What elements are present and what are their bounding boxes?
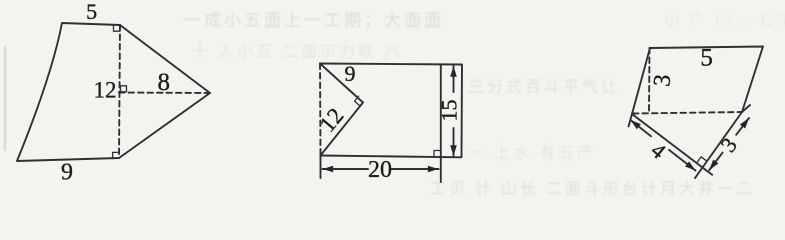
svg-text:4: 4 xyxy=(646,137,670,163)
figure 2: right-angle square at bottom edge / extension xyxy=(434,151,441,157)
svg-text:3: 3 xyxy=(649,73,676,88)
figure 3: dimension arrow 4 upper part xyxy=(631,120,652,136)
figure 3: dashed horizontal P5 to P3 xyxy=(633,112,742,114)
svg-text:9: 9 xyxy=(345,61,356,86)
svg-text:5: 5 xyxy=(700,45,713,72)
ghost bleed-through text row 3 xyxy=(468,73,620,97)
svg-text:5: 5 xyxy=(86,0,97,24)
figure 1: pentagon ABCDE xyxy=(17,23,210,161)
figure 1: right-angle square at bottom vertex D xyxy=(113,152,119,158)
ghost faint scan line left margin xyxy=(4,46,6,151)
figure 3: extension beyond P3 upper-right xyxy=(742,105,750,112)
svg-text:8: 8 xyxy=(158,69,171,96)
svg-text:12: 12 xyxy=(94,77,117,102)
svg-text:3: 3 xyxy=(716,133,742,157)
figure 2: extension line below bottom-left corner xyxy=(320,156,322,179)
figure 2: dimension arrow 15 xyxy=(453,66,455,92)
figure 1: dashed altitude 12 (B to D) xyxy=(119,25,120,158)
figure 2: notch edge 9 (TL to V) xyxy=(320,64,363,103)
figure 1: right-angle square at top vertex B xyxy=(114,25,120,31)
figure 3: extension beyond P4 lower-left xyxy=(695,168,703,179)
figure 1: right-angle square at midpoint F xyxy=(121,86,127,92)
figure 3: right-angle square at P4 xyxy=(697,157,706,162)
figure 2: notch edge 12 (V to BL) xyxy=(321,103,364,156)
svg-text:20: 20 xyxy=(368,157,392,183)
ghost bleed-through text row 5 xyxy=(430,175,755,199)
figure 2: extension line right of 20-dimension xyxy=(440,66,442,183)
figure 2: dimension arrow 15 lower part xyxy=(453,128,455,156)
figure 3: dimension arrow 3 upper part xyxy=(736,118,749,135)
figure 2: right-angle square at notch vertex V xyxy=(355,96,360,105)
figure 3: pentagon P1..P5 xyxy=(632,47,763,168)
figure 2: rectangle (top, right, bottom edges solid) xyxy=(320,64,462,158)
ghost bleed-through text row 2 xyxy=(192,38,403,62)
figure 2: dashed left edge xyxy=(319,64,322,156)
figure 3: dimension arrow 4 lower part xyxy=(669,150,696,171)
ghost bleed-through text row 1 xyxy=(184,6,444,31)
figure 3: dimension arrow 3 lower part xyxy=(709,153,722,170)
figure 3: dashed vertical height 3 xyxy=(648,48,651,113)
svg-text:9: 9 xyxy=(61,159,73,185)
figure 3: extension beyond P5 xyxy=(629,114,633,127)
figure 1: dashed segment 8 (mid to apex C) xyxy=(119,92,210,95)
ghost bleed-through text row 6 xyxy=(664,9,785,30)
figure 2: dimension arrow 20 left part xyxy=(323,168,369,170)
figure 3: extension beyond P4 lower-right xyxy=(703,168,713,175)
ghost bleed-through text row 4 xyxy=(468,139,596,163)
figure 2: dimension arrow 20 right part xyxy=(392,168,439,170)
svg-text:15: 15 xyxy=(437,100,462,122)
